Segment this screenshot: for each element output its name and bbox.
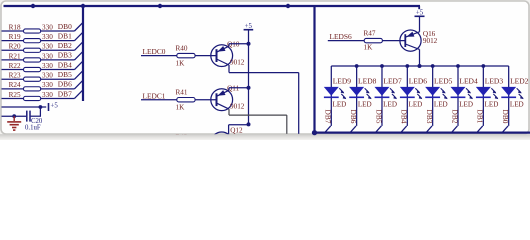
svg-text:LEDC0: LEDC0: [143, 47, 166, 56]
svg-text:DB6: DB6: [349, 110, 358, 124]
wire: LED2 column: [508, 66, 510, 126]
svg-text:+5: +5: [245, 23, 253, 30]
LED LED9: [324, 76, 351, 108]
svg-text:LED: LED: [485, 100, 499, 108]
wire: R21 to net DB3: [41, 59, 75, 61]
transistor Q16 9012: [400, 30, 438, 51]
transistor Q12 (partial): [211, 127, 243, 142]
svg-text:330: 330: [42, 62, 53, 70]
node: rail junction col 1: [355, 64, 359, 68]
LED LED7: [374, 76, 401, 108]
svg-text:R24: R24: [9, 81, 21, 89]
wire: Q12 emitter stub: [229, 125, 249, 134]
svg-text:LED: LED: [409, 100, 423, 108]
svg-text:LEDS6: LEDS6: [330, 32, 352, 41]
wire: bus entry DB4: [75, 62, 83, 70]
wire: R22 to net DB4: [41, 69, 75, 71]
bus: left vertical DB bus: [82, 6, 84, 101]
resistor R40 1K: [176, 45, 196, 68]
wire: Q10 collector route: [229, 65, 299, 134]
svg-text:LED7: LED7: [383, 76, 402, 85]
resistor R24 330: [9, 81, 54, 91]
wire: R41 to Q11 base: [195, 99, 216, 101]
svg-text:LED8: LED8: [358, 76, 377, 85]
wire: bus entry DB3: [426, 126, 432, 132]
node: bus junction left: [31, 4, 35, 8]
LED LED4: [451, 76, 478, 108]
svg-text:LED: LED: [510, 100, 524, 108]
wire: LEDC1 to R41: [141, 99, 177, 101]
svg-text:R25: R25: [9, 91, 21, 99]
transistor Q10 9012: [211, 41, 245, 67]
wire: Q11 emitter to +5 rail: [229, 88, 249, 91]
node: bus corner at left vertical bus: [81, 4, 85, 8]
wire: LED3 column: [482, 66, 484, 126]
svg-text:1K: 1K: [364, 44, 374, 52]
svg-text:1K: 1K: [176, 104, 186, 112]
svg-text:DB0: DB0: [58, 22, 72, 31]
bus: top horizontal data bus: [4, 6, 421, 9]
node: bottom bus corner junction: [312, 130, 317, 135]
wire: Q16 collector to LED rail: [419, 49, 421, 66]
svg-text:330: 330: [42, 72, 53, 80]
wire: R47 to Q16 base: [382, 40, 405, 42]
resistor R23 330: [9, 72, 54, 82]
svg-text:LED: LED: [333, 100, 347, 108]
svg-text:LEDC1: LEDC1: [143, 91, 166, 100]
wire: LED7 column: [381, 66, 383, 126]
resistor R22 330: [9, 62, 54, 72]
wire: Q10 emitter to +5 rail: [229, 44, 249, 47]
svg-text:DB3: DB3: [58, 51, 72, 60]
node: bottom bus corner junction (overlay): [312, 130, 317, 135]
svg-text:DB0: DB0: [501, 110, 510, 124]
wire: bus entry DB5: [376, 126, 382, 132]
svg-text:DB4: DB4: [58, 60, 72, 69]
svg-text:R23: R23: [9, 72, 21, 80]
power +5 (bottom left): [49, 103, 59, 112]
svg-text:9012: 9012: [230, 58, 245, 66]
node: Q11 emitter junction: [247, 86, 251, 90]
wire: input to R20: [2, 49, 24, 51]
wire: +5 emitter rail: [248, 30, 250, 125]
node: Q16 collector junction on rail: [418, 64, 422, 68]
svg-text:DB5: DB5: [58, 70, 72, 79]
wire: bus entry DB1: [75, 33, 83, 41]
svg-text:DB3: DB3: [425, 110, 434, 124]
svg-text:R47: R47: [364, 30, 376, 38]
wire: R19 to net DB1: [41, 40, 75, 42]
transistor Q11 9012: [211, 85, 245, 111]
wire: bus entry DB6: [75, 81, 83, 89]
node: Q10 emitter junction: [247, 42, 251, 46]
svg-text:R18: R18: [9, 23, 21, 31]
wire: LEDC0 to R40: [141, 55, 177, 57]
wire: bus entry DB3: [75, 52, 83, 60]
svg-text:LED6: LED6: [409, 76, 428, 85]
wire: LED6 column: [406, 66, 408, 126]
svg-text:DB2: DB2: [450, 110, 459, 124]
node: rail junction col 3: [405, 64, 409, 68]
wire: bus entry DB4: [401, 126, 407, 132]
svg-text:LED3: LED3: [485, 76, 504, 85]
svg-text:LED: LED: [358, 100, 372, 108]
svg-text:LED4: LED4: [459, 76, 478, 85]
svg-text:0.1uF: 0.1uF: [25, 124, 41, 131]
svg-text:DB1: DB1: [58, 31, 72, 40]
svg-text:DB7: DB7: [324, 110, 333, 124]
svg-text:LED5: LED5: [434, 76, 453, 85]
bus: bottom horizontal DB bus: [315, 132, 530, 134]
LED LED8: [349, 76, 376, 108]
capacitor C20 0.1uF: [25, 111, 43, 132]
svg-text:R22: R22: [9, 62, 21, 70]
wire: Q11 collector route (dark): [229, 109, 287, 134]
svg-text:R19: R19: [9, 33, 21, 41]
wire: R25 to net DB7: [41, 97, 75, 99]
wire: bus entry DB2: [452, 126, 458, 132]
resistor R18 330: [9, 23, 54, 33]
wire: input to R19: [2, 40, 24, 42]
svg-text:DB1: DB1: [476, 110, 485, 124]
svg-text:330: 330: [42, 43, 53, 51]
LED LED2: [501, 76, 528, 108]
wire: R40 to Q10 base: [195, 55, 216, 57]
svg-text:DB4: DB4: [400, 110, 409, 124]
wire: bus entry DB1: [477, 126, 483, 132]
resistor R19 330: [9, 33, 54, 43]
node: rail junction col 5: [456, 64, 460, 68]
wire: bus entry DB7: [325, 126, 331, 132]
wire: bus entry DB6: [350, 126, 356, 132]
wire: bus entry DB0: [75, 23, 83, 31]
wire: R23 to net DB5: [41, 78, 75, 80]
svg-text:LED: LED: [434, 100, 448, 108]
svg-text:Q12: Q12: [230, 127, 243, 135]
bottom shadow band: [0, 134, 530, 140]
svg-text:DB7: DB7: [58, 89, 72, 98]
svg-text:LED: LED: [459, 100, 473, 108]
wire: LED5 column: [432, 66, 434, 126]
wire: R24 to net DB6: [41, 88, 75, 90]
svg-text:330: 330: [42, 81, 53, 89]
svg-text:DB5: DB5: [374, 110, 383, 124]
wire: input to R21: [2, 59, 24, 61]
wire: LED4 column: [457, 66, 459, 126]
LED LED5: [425, 76, 452, 108]
wire: bus entry DB7: [75, 90, 83, 98]
wire: cap right plate to +5 wire: [39, 107, 41, 116]
wire: +5 feed top: [2, 106, 47, 108]
svg-text:LED9: LED9: [333, 76, 352, 85]
node: bus junction mid: [158, 4, 162, 8]
node: bus junction right: [286, 4, 290, 8]
wire: input to R18: [2, 30, 24, 32]
wire: bus entry DB5: [75, 71, 83, 79]
svg-text:9012: 9012: [423, 37, 438, 45]
svg-text:9012: 9012: [230, 103, 245, 111]
wire: LED9 column: [330, 66, 332, 126]
node: rail junction col 2: [380, 64, 384, 68]
resistor R41 1K: [176, 89, 196, 112]
ground symbol: [7, 116, 21, 130]
node: rail end junction: [247, 122, 251, 126]
wire: ground wire bottom: [2, 115, 27, 117]
svg-text:1K: 1K: [176, 59, 186, 67]
wire: input to R23: [2, 78, 24, 80]
power +5 (above Q16): [415, 10, 425, 17]
wire: +5 to Q16 emitter: [419, 16, 421, 32]
wire: bus entry DB0: [502, 126, 508, 132]
wire: R18 to net DB0: [41, 30, 75, 32]
node: rail junction col 6: [481, 64, 485, 68]
wire: input to R24: [2, 88, 24, 90]
node: rail junction col 4: [431, 64, 435, 68]
svg-text:+5: +5: [51, 103, 59, 110]
svg-text:330: 330: [42, 91, 53, 99]
svg-text:330: 330: [42, 23, 53, 31]
LED LED3: [476, 76, 503, 108]
svg-text:R40: R40: [176, 45, 188, 53]
node: junction on +5 wire: [39, 105, 43, 109]
LED LED6: [400, 76, 427, 108]
svg-text:330: 330: [42, 52, 53, 60]
power +5 (above Q10): [244, 23, 254, 30]
node: junction at ground tap: [12, 114, 16, 118]
resistor R47 1K: [364, 30, 383, 52]
resistor R20 330: [9, 43, 54, 53]
wire: LED anode rail: [331, 65, 508, 67]
svg-text:330: 330: [42, 33, 53, 41]
resistor R21 330: [9, 52, 54, 62]
svg-text:LED: LED: [383, 100, 397, 108]
wire: R20 to net DB2: [41, 49, 75, 51]
bus: vertical bus to LED matrix: [313, 6, 315, 133]
svg-text:R41: R41: [176, 89, 188, 97]
svg-text:DB6: DB6: [58, 80, 72, 89]
resistor R25 330: [9, 91, 54, 101]
svg-text:LED2: LED2: [510, 76, 529, 85]
svg-text:R20: R20: [9, 43, 21, 51]
wire: input to R22: [2, 69, 24, 71]
wire: bus entry DB2: [75, 42, 83, 50]
page background card: [1, 1, 529, 134]
wire: LED8 column: [356, 66, 358, 126]
svg-text:DB2: DB2: [58, 41, 72, 50]
wire: LEDS6 to R47: [328, 40, 364, 42]
wire: input to R25: [2, 97, 24, 99]
svg-text:R21: R21: [9, 52, 21, 60]
